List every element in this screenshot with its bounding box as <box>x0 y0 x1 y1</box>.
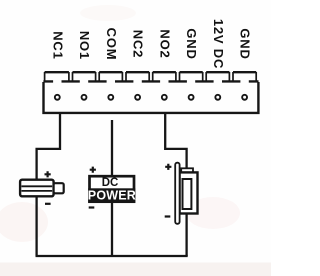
svg-text:12V DC: 12V DC <box>211 19 226 69</box>
terminal block lower lip segments <box>43 80 258 82</box>
wire: NO2 terminal to strike branch (right) <box>165 114 186 256</box>
svg-text:GND: GND <box>238 28 253 59</box>
terminal screw 7 (12V DC) <box>215 95 220 100</box>
strike minus <box>165 215 171 217</box>
strike inner slot <box>183 179 192 209</box>
wire: bottom bus <box>36 255 188 257</box>
terminal screw 6 (GND) <box>189 95 194 100</box>
lock (left component) body <box>20 180 54 197</box>
terminal screw 1 (NC1) <box>55 95 60 100</box>
faint scan smudge bottom-left <box>0 202 48 242</box>
terminal block tab side drops <box>45 72 257 81</box>
terminal screws <box>55 95 247 100</box>
lock nub <box>54 183 64 193</box>
faint scan smudge top <box>80 5 136 21</box>
strike (right component) top cap <box>181 168 193 174</box>
faint scan smudge right <box>186 197 240 229</box>
wire: NC1 terminal to lock branch (left) <box>37 114 60 256</box>
terminal screw 8 (GND2) <box>242 95 247 100</box>
svg-text:NC2: NC2 <box>131 30 146 58</box>
lock stripes <box>22 186 53 191</box>
DC power plus <box>90 167 96 173</box>
bottom scan band <box>0 263 271 276</box>
terminal screw 3 (COM) <box>108 95 113 100</box>
wire: COM terminal to DC power branch (middle) <box>111 120 113 256</box>
terminal screw 5 (NO2) <box>162 95 167 100</box>
terminal block top bars <box>45 71 257 73</box>
svg-text:NO2: NO2 <box>157 29 172 58</box>
svg-text:NC1: NC1 <box>50 31 65 59</box>
terminal block body <box>44 82 259 113</box>
svg-text:COM: COM <box>104 28 119 61</box>
lock minus <box>45 203 51 205</box>
strike plus <box>165 164 171 170</box>
terminal labels NC1 NO1 COM NC2 NO2 GND 12VDC GND <box>50 19 252 69</box>
svg-text:NO1: NO1 <box>77 31 92 60</box>
svg-text:POWER: POWER <box>88 189 136 203</box>
lock plus <box>45 171 51 177</box>
strike faceplate <box>175 163 179 224</box>
terminal screw 2 (NO1) <box>82 95 87 100</box>
DC power minus <box>89 206 95 208</box>
terminal screw 4 (NC2) <box>135 95 140 100</box>
DC power black band <box>88 188 135 203</box>
strike body <box>180 172 198 213</box>
DC power box <box>90 176 135 202</box>
svg-text:DC: DC <box>102 177 119 189</box>
svg-text:GND: GND <box>184 28 199 59</box>
